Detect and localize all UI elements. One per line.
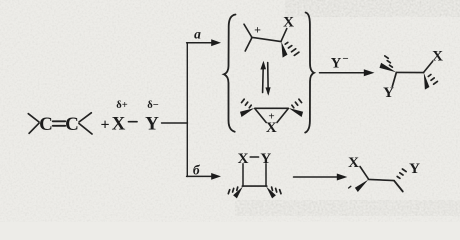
left curly brace — [224, 15, 236, 132]
svg-text:+: + — [268, 111, 274, 123]
product a: C-Y bond — [392, 73, 396, 87]
carbocation C-X bond — [281, 29, 287, 42]
onium right bold wedge down-right — [289, 108, 304, 117]
svg-text:−: − — [342, 53, 348, 65]
svg-text:Y: Y — [331, 56, 342, 72]
four-center: left hash wedge — [228, 187, 237, 194]
svg-text:+: + — [100, 117, 109, 134]
carbocation C-C bond — [252, 37, 282, 41]
branch trunk wire — [186, 43, 188, 177]
svg-text:X: X — [348, 155, 359, 171]
svg-text:C: C — [65, 114, 79, 135]
svg-text:+: + — [254, 23, 261, 37]
onium left C-X bond — [255, 109, 266, 123]
alkene C=C left substituent bonds — [28, 114, 39, 122]
product b: C bond down-right — [394, 181, 403, 192]
Y- arrow wire — [320, 72, 367, 74]
svg-text:δ−: δ− — [147, 100, 158, 111]
alkene right substituent bonds — [79, 113, 91, 122]
product b: C-C bond — [368, 179, 394, 180]
svg-text:δ+: δ+ — [116, 100, 127, 111]
four-center: Y-C wire — [265, 164, 267, 186]
branch b arrowhead — [211, 173, 221, 180]
product a: C-X bond — [424, 61, 433, 72]
svg-text:Y: Y — [409, 161, 420, 177]
product a: C-C bond — [396, 71, 423, 73]
onium right C-X bond — [277, 109, 288, 123]
carbocation hash wedge down-right — [285, 42, 299, 55]
svg-text:Y: Y — [145, 114, 159, 135]
onium C-C bond — [255, 107, 288, 109]
four-center: left bold wedge — [233, 187, 243, 199]
svg-text:X: X — [283, 15, 294, 31]
onium right hash wedge up-right — [292, 99, 302, 108]
branch b wire — [187, 175, 213, 177]
arrowhead b to product — [337, 174, 348, 181]
branch a arrowhead — [211, 39, 221, 46]
product b: X-C bond — [360, 167, 368, 179]
right curly brace — [305, 13, 314, 133]
equilibrium arrow down — [267, 63, 270, 94]
svg-text:Y: Y — [383, 85, 394, 101]
svg-text:C: C — [39, 114, 53, 135]
four-center: C-C bond — [242, 185, 266, 187]
denser speckle band bottom — [235, 200, 460, 216]
svg-text:a: a — [194, 27, 201, 42]
product b: right hash wedge up-right to Y — [397, 169, 406, 178]
product b: left small hash mark — [349, 186, 351, 188]
arrow b to product — [294, 176, 340, 178]
equilibrium arrow up — [262, 64, 265, 93]
carbocation bold wedge down — [281, 42, 287, 58]
four-center: right bold wedge — [266, 187, 276, 199]
X-Y bond dash — [129, 121, 138, 123]
alkene double bond — [53, 120, 66, 122]
product a: left bold wedge up-left — [380, 63, 397, 72]
Y- arrowhead — [364, 69, 375, 76]
onium left bold wedge down-left — [240, 108, 255, 117]
four-center: right hash wedge — [272, 187, 281, 194]
denser speckle band top-right — [285, 0, 460, 17]
carbocation: CH3 bond down-left — [245, 38, 252, 52]
product b: left bold wedge down-left — [355, 180, 368, 192]
four-center: X-C wire — [242, 164, 244, 186]
carbocation: CH3 bond up-left — [244, 24, 252, 37]
onium left hash wedge up-left — [242, 99, 252, 108]
four-center: X-Y dash — [250, 156, 258, 158]
product a: right hash wedge down-right — [428, 75, 437, 85]
branch a wire — [187, 42, 213, 44]
product a: left hash wedge up-left — [385, 56, 393, 67]
product a: right bold wedge down — [424, 73, 430, 90]
svg-text:X: X — [432, 49, 443, 65]
feeder wire to branch — [162, 122, 188, 124]
svg-text:X: X — [112, 114, 126, 135]
